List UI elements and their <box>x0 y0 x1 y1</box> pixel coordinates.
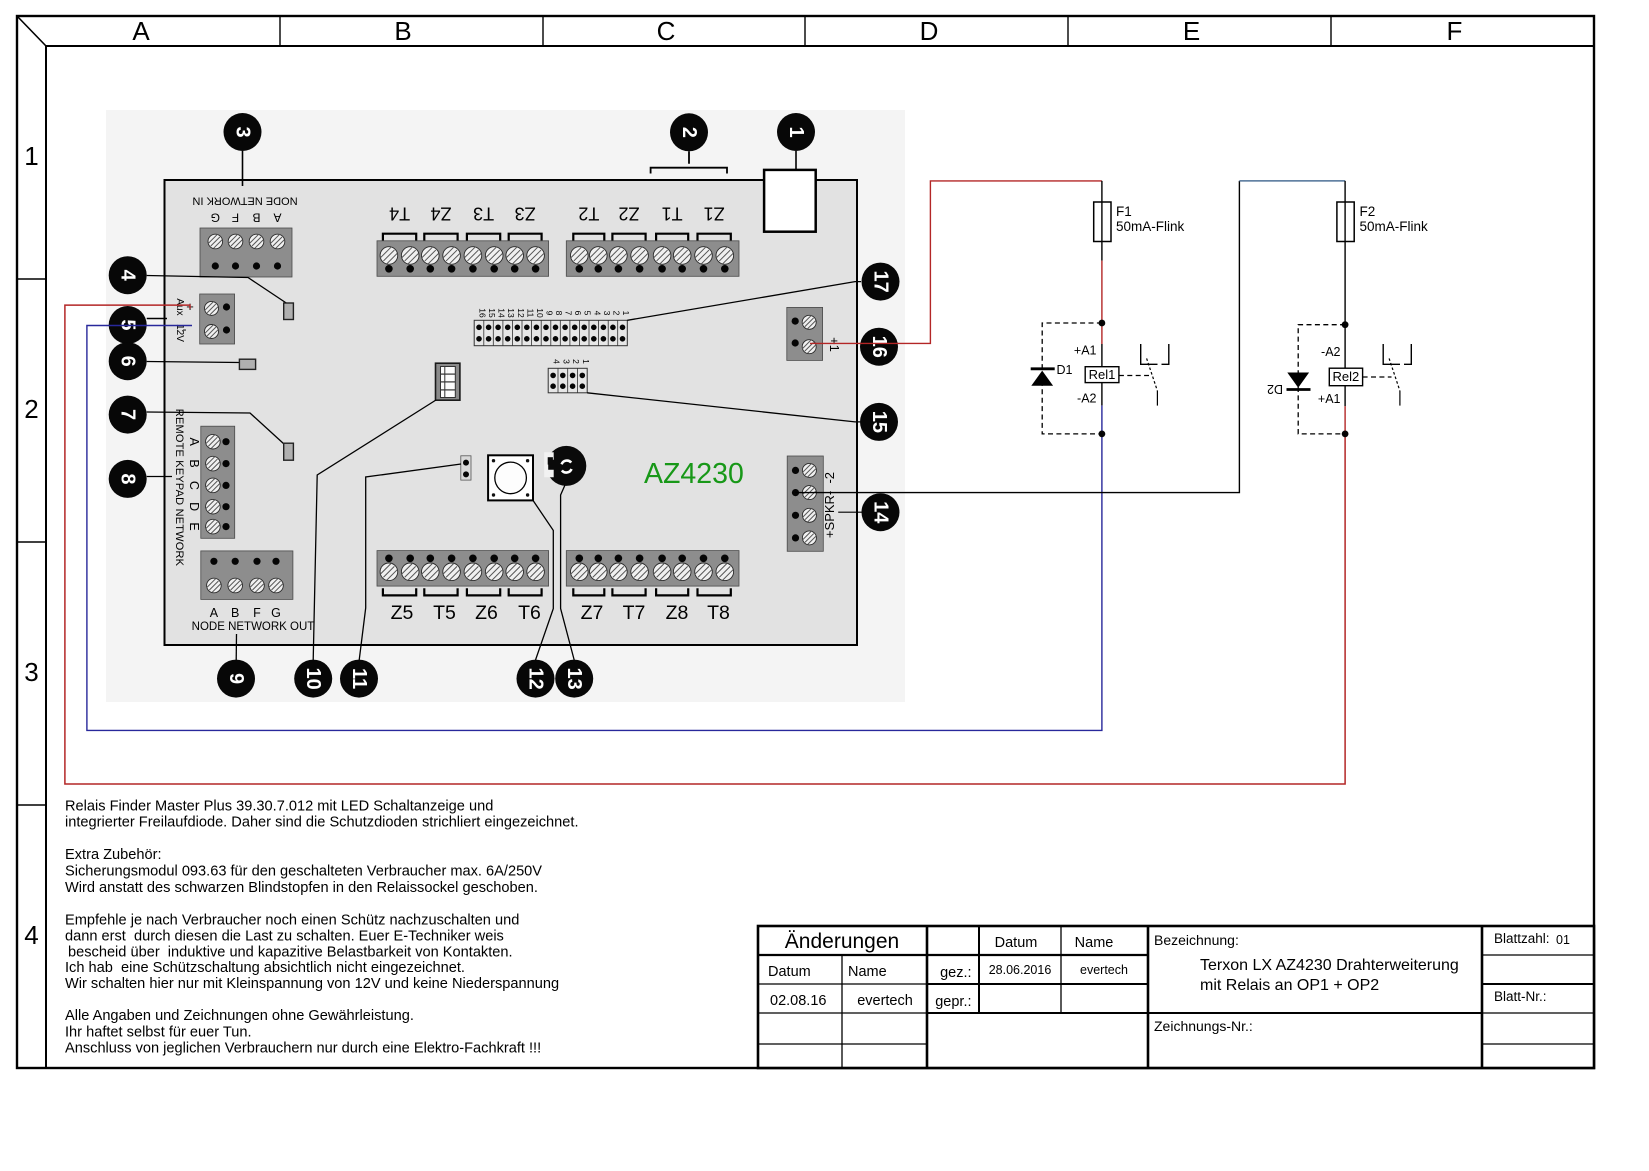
callout 5 <box>109 306 147 344</box>
leader line callout 11 <box>359 464 461 660</box>
svg-text:2: 2 <box>611 311 621 316</box>
callout 9 <box>217 660 255 698</box>
contact K1 (Rel1) <box>1119 344 1169 406</box>
svg-text:Z3: Z3 <box>515 204 536 224</box>
callout 4 <box>109 256 147 294</box>
svg-text:9: 9 <box>545 311 555 316</box>
svg-text:16: 16 <box>868 336 890 358</box>
svg-text:-: - <box>183 322 187 336</box>
svg-text:T3: T3 <box>473 204 494 224</box>
svg-text:13: 13 <box>506 308 516 318</box>
svg-text:G: G <box>271 606 281 620</box>
svg-text:3: 3 <box>24 657 38 687</box>
svg-text:F: F <box>232 211 239 225</box>
callout 15 <box>860 403 898 441</box>
svg-text:5: 5 <box>583 311 593 316</box>
notes text <box>65 798 579 1056</box>
wire black +A1 into Rel1 coil <box>1101 344 1103 367</box>
callout 13 <box>555 660 593 698</box>
svg-text:C: C <box>187 481 201 490</box>
svg-text:02.08.16: 02.08.16 <box>770 993 826 1009</box>
svg-text:16: 16 <box>478 308 488 318</box>
svg-text:2: 2 <box>678 127 700 138</box>
pin header 16..1 <box>474 308 631 345</box>
svg-text:-A2: -A2 <box>1321 345 1341 359</box>
junction node Rel1 top <box>1099 320 1106 327</box>
callout 3 <box>224 113 262 151</box>
leader line callout 6 <box>147 362 240 363</box>
svg-text:Sicherungsmodul 093.63 für den: Sicherungsmodul 093.63 für den geschalte… <box>65 863 542 879</box>
terminal block NODE NETWORK IN <box>192 195 297 278</box>
svg-text:3: 3 <box>232 126 254 137</box>
leader line callout 10 <box>313 400 436 660</box>
svg-text:50mA-Flink: 50mA-Flink <box>1116 219 1185 234</box>
leader line callout 7 <box>147 412 284 444</box>
svg-text:01: 01 <box>1556 933 1570 947</box>
svg-text:T4: T4 <box>389 204 410 224</box>
svg-text:12: 12 <box>516 308 526 318</box>
svg-text:Datum: Datum <box>768 964 811 980</box>
svg-text:D2: D2 <box>1267 382 1283 396</box>
svg-text:1: 1 <box>24 141 38 171</box>
terminal block OP1 +1 <box>787 307 842 360</box>
svg-text:T5: T5 <box>433 602 456 624</box>
svg-text:14: 14 <box>497 308 507 318</box>
callout 12 <box>517 660 555 698</box>
svg-text:+A1: +A1 <box>1074 344 1097 358</box>
svg-text:9: 9 <box>225 673 247 684</box>
svg-text:E: E <box>1183 16 1200 46</box>
wire black from SPKR-2 to F2 branch <box>796 181 1240 493</box>
callout 1 <box>777 113 815 151</box>
svg-text:6: 6 <box>117 356 139 367</box>
svg-text:7: 7 <box>117 409 139 420</box>
terminal block Aux 12V <box>174 294 235 344</box>
svg-text:-A2: -A2 <box>1077 392 1097 406</box>
svg-text:D: D <box>187 502 201 511</box>
svg-text:15: 15 <box>868 411 890 433</box>
callout 6 <box>109 342 147 380</box>
svg-text:Z1: Z1 <box>704 204 725 224</box>
callout 2 <box>670 113 708 151</box>
svg-text:B: B <box>187 459 201 467</box>
svg-text:Datum: Datum <box>995 935 1038 951</box>
svg-text:Empfehle je nach Verbraucher n: Empfehle je nach Verbraucher noch einen … <box>65 913 519 929</box>
svg-text:NODE NETWORK IN: NODE NETWORK IN <box>192 195 297 207</box>
piezo sounder BZ1 <box>544 446 586 486</box>
svg-text:Aux: Aux <box>174 298 185 315</box>
leader line callout 8 <box>147 476 172 478</box>
svg-text:+A1: +A1 <box>1318 392 1341 406</box>
junction node Rel2 bottom <box>1342 431 1349 438</box>
svg-text:10: 10 <box>302 667 324 689</box>
svg-text:6: 6 <box>573 311 583 316</box>
svg-text:Blattzahl:: Blattzahl: <box>1494 931 1550 946</box>
leader line callout 12 <box>533 500 553 660</box>
svg-text:3: 3 <box>602 311 612 316</box>
leader line callout 4 <box>147 276 287 304</box>
svg-text:13: 13 <box>563 667 585 689</box>
wire red from Aux+ to bottom rail and up to Rel2 +A1 <box>65 305 1345 784</box>
svg-text:12: 12 <box>525 667 547 689</box>
svg-text:B: B <box>252 211 260 225</box>
svg-text:4: 4 <box>552 359 562 364</box>
diode D2 <box>1267 373 1311 397</box>
svg-text:Rel1: Rel1 <box>1089 367 1116 382</box>
svg-text:Zeichnungs-Nr.:: Zeichnungs-Nr.: <box>1154 1018 1253 1034</box>
callout 10 <box>294 660 332 698</box>
svg-text:17: 17 <box>870 270 892 292</box>
DIP switch <box>436 363 460 400</box>
svg-text:A: A <box>210 606 219 620</box>
pin header 4..1 <box>548 359 591 393</box>
connector X1 (white box) <box>764 170 816 232</box>
svg-text:gez.:: gez.: <box>940 965 971 981</box>
solder pad rect near callout 4 <box>284 303 294 320</box>
svg-text:evertech: evertech <box>1080 963 1128 977</box>
contact K2 (Rel2) <box>1363 344 1412 406</box>
svg-text:A: A <box>273 211 281 225</box>
leader line callout 15 <box>587 393 860 422</box>
svg-text:D1: D1 <box>1057 363 1073 377</box>
svg-text:10: 10 <box>535 308 545 318</box>
title block <box>758 926 1594 1068</box>
svg-text:T8: T8 <box>707 602 730 624</box>
svg-text:2: 2 <box>571 359 581 364</box>
solder pad rect near callout 6 <box>239 359 255 369</box>
svg-text:4: 4 <box>117 270 139 282</box>
svg-text:T2: T2 <box>578 204 599 224</box>
svg-text:REMOTE KEYPAD NETWORK: REMOTE KEYPAD NETWORK <box>173 409 185 567</box>
svg-text:11: 11 <box>525 309 535 318</box>
svg-text:7: 7 <box>564 311 574 316</box>
svg-text:8: 8 <box>554 311 564 316</box>
svg-text:4: 4 <box>592 311 602 316</box>
svg-text:Extra Zubehör:: Extra Zubehör: <box>65 847 162 863</box>
svg-text:F2: F2 <box>1360 204 1376 219</box>
wire black through fuse F1 <box>1101 181 1103 261</box>
leader line callout 2 with bracket <box>651 151 727 173</box>
svg-text:dann erst durch diesen die La: dann erst durch diesen die Last zu schal… <box>65 929 504 945</box>
svg-text:D: D <box>920 16 939 46</box>
svg-text:Ich hab eine Schützschaltung: Ich hab eine Schützschaltung absichtlich… <box>65 960 465 976</box>
terminal block REMOTE KEYPAD NETWORK <box>173 409 235 567</box>
fuse F1 <box>1094 202 1185 242</box>
svg-text:+SPKR- -2: +SPKR- -2 <box>822 472 837 538</box>
svg-text:+1: +1 <box>827 337 842 352</box>
wire red from OP1 +1 up to F1 <box>810 181 1102 344</box>
svg-text:2: 2 <box>24 394 38 424</box>
terminal block Z1 T1 Z2 T2 <box>566 204 739 277</box>
leader line callout 9 <box>235 634 237 660</box>
svg-text:B: B <box>231 606 239 620</box>
solder pad rect near callout 7 <box>284 443 294 460</box>
svg-text:T6: T6 <box>518 602 541 624</box>
svg-text:Alle Angaben und Zeichnungen o: Alle Angaben und Zeichnungen ohne Gewähr… <box>65 1008 414 1024</box>
svg-text:B: B <box>394 16 411 46</box>
terminal block NODE NETWORK OUT <box>192 551 315 633</box>
leader line callout 3 <box>242 151 244 186</box>
callout 17 <box>862 263 900 301</box>
svg-text:4: 4 <box>24 920 38 950</box>
wire blue from Aux- down and right to Rel1 A2 <box>87 326 1102 731</box>
svg-text:Anschluss von jeglichen Verbra: Anschluss von jeglichen Verbrauchern nur… <box>65 1041 541 1057</box>
junction node Rel1 bottom <box>1099 431 1106 438</box>
callout 14 <box>862 493 900 531</box>
svg-text:50mA-Flink: 50mA-Flink <box>1360 219 1429 234</box>
svg-text:Name: Name <box>848 964 887 980</box>
svg-text:Bezeichnung:: Bezeichnung: <box>1154 932 1239 948</box>
leader line callout 13 <box>561 485 575 660</box>
svg-text:mit Relais an OP1 + OP2: mit Relais an OP1 + OP2 <box>1200 977 1379 994</box>
leader line callout 14 <box>838 511 862 513</box>
svg-text:T1: T1 <box>662 204 683 224</box>
wire black through fuse F2 down to Rel2 <box>1344 181 1346 368</box>
terminal block +SPKR- -2 <box>787 456 837 551</box>
svg-text:G: G <box>211 211 220 225</box>
svg-text:1: 1 <box>785 126 807 137</box>
relay coil Rel1 <box>1085 367 1119 383</box>
junction node Rel2 top <box>1342 321 1349 328</box>
wire red Rel2 +A1 segment <box>1344 406 1346 434</box>
svg-text:T7: T7 <box>623 602 646 624</box>
svg-text:E: E <box>187 522 201 530</box>
svg-text:Z4: Z4 <box>430 204 451 224</box>
svg-text:1: 1 <box>581 359 591 364</box>
leader line callout 1 <box>795 151 797 170</box>
svg-text:Z6: Z6 <box>475 602 498 624</box>
svg-text:8: 8 <box>117 473 139 484</box>
terminal block Z7 T7 Z8 T8 <box>566 551 739 624</box>
PCB board AZ4230 <box>165 180 858 645</box>
svg-text:C: C <box>657 16 676 46</box>
svg-text:AZ4230: AZ4230 <box>644 458 744 490</box>
svg-text:F: F <box>253 606 261 620</box>
svg-text:Z2: Z2 <box>618 204 639 224</box>
svg-text:Z7: Z7 <box>581 602 604 624</box>
svg-text:A: A <box>187 438 201 447</box>
svg-text:3: 3 <box>561 359 571 364</box>
jumper JP1 <box>461 456 471 480</box>
svg-text:1: 1 <box>621 311 631 316</box>
tamper button S1 <box>488 455 533 500</box>
leader line callout 5 <box>147 318 167 320</box>
svg-text:Wir schalten hier nur mit Klei: Wir schalten hier nur mit Kleinspannung … <box>65 976 559 992</box>
svg-text:F: F <box>1447 16 1463 46</box>
fuse F2 <box>1337 202 1428 242</box>
svg-text:evertech: evertech <box>857 993 913 1009</box>
svg-text:Relais Finder Master Plus 39.3: Relais Finder Master Plus 39.30.7.012 mi… <box>65 798 493 814</box>
svg-text:F1: F1 <box>1116 204 1132 219</box>
callout 7 <box>109 396 147 434</box>
wire steel blue top link to F2 <box>1239 180 1345 182</box>
wire black Rel2 below coil <box>1344 386 1346 406</box>
svg-text:Ihr haftet selbst für euer Tun: Ihr haftet selbst für euer Tun. <box>65 1024 252 1040</box>
svg-text:Z8: Z8 <box>666 602 689 624</box>
board image backdrop <box>106 110 905 702</box>
svg-text:Blatt-Nr.:: Blatt-Nr.: <box>1494 989 1547 1004</box>
svg-text:14: 14 <box>870 501 892 524</box>
svg-text:Name: Name <box>1075 935 1114 951</box>
wire black Rel1 below coil <box>1101 383 1103 406</box>
callout 16 <box>860 328 898 366</box>
svg-text:gepr.:: gepr.: <box>935 994 971 1010</box>
svg-text:bescheid über induktive und k: bescheid über induktive und kapazitive B… <box>68 945 513 961</box>
svg-text:11: 11 <box>348 668 370 689</box>
terminal block Z5 T5 Z6 T6 <box>377 551 549 624</box>
leader line callout 17 <box>627 282 861 321</box>
freewheel diode box D2 (dashed) <box>1298 325 1345 434</box>
svg-text:Rel2: Rel2 <box>1333 369 1360 384</box>
freewheel diode box D1 (dashed) <box>1042 323 1102 434</box>
svg-text:Änderungen: Änderungen <box>785 930 899 953</box>
wire blue Rel1 -A2 down <box>1101 405 1103 434</box>
relay coil Rel2 <box>1329 368 1362 386</box>
svg-text:NODE NETWORK OUT: NODE NETWORK OUT <box>192 621 315 633</box>
svg-text:Wird anstatt des schwarzen Bli: Wird anstatt des schwarzen Blindstopfen … <box>65 880 538 896</box>
svg-text:28.06.2016: 28.06.2016 <box>989 963 1052 977</box>
svg-text:15: 15 <box>487 308 497 318</box>
svg-text:A: A <box>132 16 150 46</box>
callout 11 <box>340 660 378 698</box>
svg-text:integrierter Freilaufdiode. Da: integrierter Freilaufdiode. Daher sind d… <box>65 814 579 830</box>
svg-text:Z5: Z5 <box>391 602 414 624</box>
callout 8 <box>109 460 147 498</box>
wire red from F1 to Rel1 +A1 <box>1101 261 1103 344</box>
diode D1 <box>1031 363 1073 386</box>
frame row numbers <box>24 141 38 950</box>
svg-text:Terxon LX AZ4230 Drahterweiter: Terxon LX AZ4230 Drahterweiterung <box>1200 957 1459 974</box>
frame column letters <box>132 16 1462 46</box>
terminal block Z3 T3 Z4 T4 <box>377 204 549 277</box>
